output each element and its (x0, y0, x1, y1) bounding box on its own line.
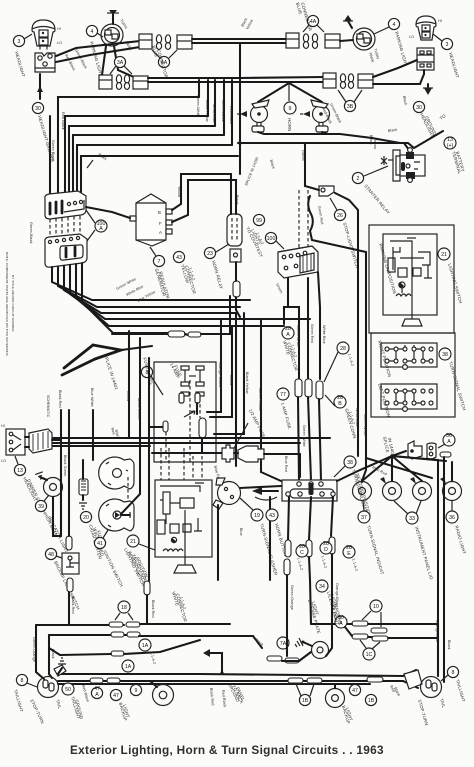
svg-text:10: 10 (373, 604, 379, 610)
svg-text:7A: 7A (280, 641, 287, 647)
svg-text:9: 9 (135, 688, 138, 694)
svg-text:LIGHTING SWITCH: LIGHTING SWITCH (447, 263, 463, 304)
svg-text:13: 13 (17, 468, 23, 474)
svg-text:Green-Black: Green-Black (29, 222, 33, 244)
svg-text:SPLICE IN 14401: SPLICE IN 14401 (103, 354, 119, 391)
svg-text:Black: Black (388, 128, 398, 133)
svg-text:39: 39 (38, 504, 44, 510)
svg-text:26: 26 (337, 213, 343, 219)
svg-text:48: 48 (48, 552, 54, 558)
svg-text:Yellow: Yellow (126, 390, 130, 401)
svg-text:1-1-A-2: 1-1-A-2 (351, 558, 358, 572)
svg-text:Black Red: Black Red (209, 688, 215, 706)
svg-text:BY TITLE AND/OR CIRCUIT NUMBER: BY TITLE AND/OR CIRCUIT NUMBER (11, 275, 15, 332)
svg-text:8: 8 (21, 678, 24, 684)
svg-text:4: 4 (393, 22, 396, 28)
svg-text:Yellow: Yellow (177, 186, 181, 197)
svg-text:INSTRUMENT PANEL LIG: INSTRUMENT PANEL LIG (414, 526, 434, 581)
svg-text:HEADLIGHT: HEADLIGHT (448, 52, 460, 79)
svg-text:STOP-TURN: STOP-TURN (29, 698, 45, 724)
svg-text:RADIO LIGHT: RADIO LIGHT (454, 525, 467, 555)
svg-text:PARKING LIGHT: PARKING LIGHT (394, 31, 409, 67)
svg-text:B: B (158, 210, 161, 215)
svg-text:1/2 AMP FUSE: 1/2 AMP FUSE (248, 408, 266, 438)
svg-text:LO: LO (57, 41, 62, 45)
svg-text:Black Red: Black Red (71, 596, 75, 614)
svg-text:PARK: PARK (368, 52, 375, 63)
svg-text:9: 9 (289, 106, 292, 112)
svg-text:A: A (447, 439, 451, 445)
svg-text:White Blue: White Blue (126, 285, 145, 297)
svg-text:TURN-SIGNAL FLASHER: TURN-SIGNAL FLASHER (259, 523, 279, 576)
svg-text:Red-Black: Red-Black (229, 106, 233, 124)
svg-text:77: 77 (280, 392, 286, 398)
svg-text:F: F (159, 221, 162, 226)
svg-text:1A: 1A (142, 643, 149, 649)
svg-text:41: 41 (97, 541, 103, 547)
svg-text:100: 100 (267, 236, 276, 242)
svg-text:D: D (324, 547, 328, 553)
svg-text:HORN: HORN (287, 118, 292, 131)
svg-text:30: 30 (416, 105, 422, 111)
svg-text:TAIL: TAIL (55, 699, 63, 710)
svg-text:A: A (95, 692, 99, 698)
svg-text:Green Red: Green Red (310, 324, 314, 343)
svg-text:47: 47 (352, 688, 358, 694)
svg-text:8: 8 (452, 670, 455, 676)
svg-text:LO: LO (1, 459, 6, 463)
svg-text:1B: 1B (368, 698, 375, 704)
svg-text:HI: HI (1, 424, 5, 428)
svg-text:3B: 3B (347, 104, 354, 110)
svg-text:Green Black: Green Black (51, 140, 55, 161)
svg-text:Red-Black: Red-Black (81, 684, 90, 702)
svg-text:Green White: Green White (302, 425, 306, 447)
svg-text:34: 34 (319, 584, 325, 590)
svg-text:Red Black: Red Black (61, 112, 65, 130)
svg-text:A: A (286, 332, 290, 338)
svg-text:HORN RELAY: HORN RELAY (211, 260, 224, 290)
svg-text:Green-Orange: Green-Orange (32, 637, 36, 662)
svg-text:Blue: Blue (239, 528, 243, 536)
svg-text:Black: Black (269, 159, 275, 169)
svg-text:LO: LO (409, 35, 414, 39)
svg-text:99: 99 (256, 218, 262, 224)
svg-text:TURN-SIGNAL SWITCH: TURN-SIGNAL SWITCH (448, 361, 467, 411)
svg-text:Green: Green (275, 283, 283, 294)
svg-text:White Blue: White Blue (322, 325, 326, 344)
svg-text:Green-Orange: Green-Orange (290, 585, 294, 610)
svg-text:4: 4 (91, 29, 94, 35)
svg-text:SCHEMATIC: SCHEMATIC (46, 395, 50, 418)
svg-text:3: 3 (18, 39, 21, 45)
svg-text:White-Blue: White-Blue (212, 104, 216, 123)
svg-text:Black: Black (402, 95, 408, 105)
svg-text:IGNITION SWITCH: IGNITION SWITCH (102, 549, 124, 587)
svg-text:C: C (300, 550, 304, 556)
svg-text:TAILLIGHT: TAILLIGHT (455, 679, 466, 703)
svg-text:Black: Black (447, 640, 451, 650)
svg-text:LEFT POSITION: LEFT POSITION (377, 383, 391, 418)
svg-text:20: 20 (83, 515, 89, 521)
svg-text:RIGHT POSITION: RIGHT POSITION (377, 340, 392, 378)
svg-text:Black Green: Black Green (63, 455, 67, 476)
svg-text:Black Red: Black Red (58, 390, 62, 408)
svg-text:Blue White: Blue White (90, 388, 94, 407)
svg-text:3A: 3A (117, 60, 124, 66)
svg-text:37: 37 (361, 515, 367, 521)
svg-text:18: 18 (121, 605, 127, 611)
svg-text:43: 43 (176, 255, 182, 261)
svg-text:1-1-A-2: 1-1-A-2 (320, 555, 327, 569)
svg-text:Red Black: Red Black (221, 690, 227, 708)
svg-text:1B: 1B (302, 698, 309, 704)
svg-text:A: A (99, 226, 103, 232)
svg-text:3: 3 (446, 42, 449, 48)
svg-text:A: A (159, 230, 162, 235)
svg-text:Green-Black: Green-Black (221, 100, 225, 122)
svg-text:HEADLIGHT: HEADLIGHT (14, 51, 26, 78)
svg-text:47: 47 (113, 693, 119, 699)
svg-text:Green Yellow: Green Yellow (258, 388, 262, 411)
svg-text:TAILLIGHT: TAILLIGHT (13, 689, 24, 713)
svg-text:Green Red: Green Red (317, 205, 324, 224)
svg-text:33: 33 (409, 516, 415, 522)
svg-text:19: 19 (254, 513, 260, 519)
svg-text:TAIL: TAIL (439, 698, 447, 709)
svg-text:Exterior Lighting, Horn & Turn: Exterior Lighting, Horn & Turn Signal Ci… (70, 743, 384, 757)
svg-text:White-Blue: White-Blue (355, 408, 359, 427)
svg-text:21: 21 (130, 539, 136, 545)
svg-text:B: B (338, 401, 342, 407)
svg-text:Black: Black (369, 135, 373, 145)
svg-text:23: 23 (207, 251, 213, 257)
svg-text:Black: Black (393, 687, 401, 697)
svg-text:1-1-A-2: 1-1-A-2 (296, 557, 303, 571)
svg-text:36: 36 (449, 515, 455, 521)
svg-text:21: 21 (441, 252, 447, 258)
svg-text:STARTER RELAY: STARTER RELAY (363, 183, 391, 215)
svg-text:30: 30 (35, 106, 41, 112)
svg-text:1C: 1C (366, 652, 373, 658)
svg-text:HI: HI (438, 19, 442, 23)
svg-text:SPLICE IN 14290: SPLICE IN 14290 (244, 156, 259, 186)
svg-text:Black Yellow: Black Yellow (205, 100, 209, 122)
svg-text:Red-Black: Red-Black (64, 54, 76, 72)
svg-text:Green White: Green White (363, 414, 367, 436)
svg-text:STOP-TURN: STOP-TURN (417, 699, 429, 726)
svg-text:HI: HI (57, 27, 61, 31)
svg-text:28: 28 (340, 346, 346, 352)
svg-text:E: E (347, 551, 351, 557)
svg-text:43: 43 (269, 513, 275, 519)
svg-text:Black Red: Black Red (151, 600, 155, 618)
svg-text:Black Yellow: Black Yellow (245, 372, 249, 394)
svg-text:7: 7 (158, 259, 161, 265)
svg-text:1A: 1A (125, 664, 132, 670)
svg-text:(+): (+) (447, 143, 454, 149)
svg-text:2: 2 (357, 176, 360, 182)
svg-text:Yellow: Yellow (229, 374, 233, 385)
svg-text:38: 38 (442, 352, 448, 358)
svg-text:NOTE: COMPONENT PARTS ARE IDEN: NOTE: COMPONENT PARTS ARE IDENTIFIED ON … (5, 252, 9, 357)
svg-text:Green White: Green White (296, 325, 300, 347)
svg-text:Blue Red: Blue Red (284, 456, 288, 472)
svg-text:1 AMP FUSE: 1 AMP FUSE (280, 402, 292, 430)
svg-text:50: 50 (65, 687, 71, 693)
svg-text:1-1-A-2: 1-1-A-2 (347, 353, 354, 367)
svg-text:Green-White: Green-White (196, 95, 200, 117)
svg-text:TO: TO (439, 113, 447, 121)
svg-text:TURN-SIGNAL INDICAT: TURN-SIGNAL INDICAT (366, 525, 385, 575)
svg-text:Black Green: Black Green (137, 398, 141, 419)
svg-text:Orange Yellow: Orange Yellow (218, 362, 222, 387)
svg-text:Green-Black: Green-Black (74, 49, 88, 70)
svg-text:38: 38 (347, 460, 353, 466)
svg-text:Green: Green (301, 150, 305, 161)
